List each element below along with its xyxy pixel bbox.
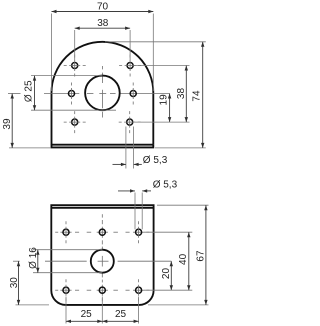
hole bottom-right	[127, 119, 133, 125]
dim 20 right	[170, 261, 172, 290]
dim 40 right	[144, 231, 192, 233]
hole top-left	[72, 62, 78, 68]
svg-text:38: 38	[176, 88, 187, 100]
bend line at back of base	[51, 207, 153, 209]
svg-text:25: 25	[115, 309, 127, 320]
svg-text:Ø 5,3: Ø 5,3	[143, 155, 168, 166]
dim 25 / 25 bottom	[65, 297, 67, 324]
svg-text:Ø 25: Ø 25	[24, 80, 35, 102]
horizontal centerline row 1	[55, 231, 58, 233]
dim 38 right	[134, 65, 190, 67]
horizontal centerline center hole	[13, 260, 20, 262]
base plate outline	[51, 205, 153, 305]
svg-text:38: 38	[97, 18, 109, 29]
dim 74 right	[105, 41, 206, 43]
hole row2-right	[136, 287, 142, 293]
vertical centerline of base	[101, 214, 103, 217]
svg-text:20: 20	[161, 268, 172, 280]
hole bottom-left	[72, 119, 78, 125]
base bottom edge	[52, 144, 154, 147]
hole mid-right	[130, 90, 136, 96]
svg-text:30: 30	[9, 277, 20, 289]
svg-text:19: 19	[159, 94, 170, 106]
hole mid-left	[68, 90, 74, 96]
bend line (base top edge)	[52, 144, 154, 146]
dim 19 right	[169, 94, 171, 123]
bracket front outline	[52, 42, 154, 145]
callout Ø5,3 (base hole)	[134, 193, 136, 230]
center hole Ø16	[91, 250, 114, 273]
svg-text:40: 40	[178, 253, 189, 265]
hole row1-left	[63, 229, 69, 235]
dim Ø25 left	[31, 75, 102, 77]
svg-text:67: 67	[195, 250, 206, 262]
svg-text:25: 25	[81, 309, 93, 320]
svg-text:39: 39	[2, 118, 13, 130]
horizontal centerline mid row	[8, 93, 21, 95]
hole row1-right	[136, 229, 142, 235]
svg-text:Ø 16: Ø 16	[28, 247, 39, 269]
dim 38 top	[74, 30, 76, 61]
hole top-right	[127, 62, 133, 68]
hole row2-left	[63, 287, 69, 293]
svg-text:70: 70	[97, 1, 109, 12]
dim Ø16 left	[33, 249, 102, 251]
horizontal centerline row 2	[55, 289, 58, 291]
dim 30 left	[16, 304, 50, 306]
vertical centerline of front view	[101, 66, 103, 69]
dim 70	[51, 14, 53, 92]
center hole Ø25	[85, 76, 120, 111]
dim 39 left	[9, 147, 51, 149]
dim 67 right	[157, 204, 209, 206]
hole row1-center	[99, 229, 105, 235]
svg-text:Ø 5,3: Ø 5,3	[153, 180, 178, 191]
hole row2-center	[99, 287, 105, 293]
callout Ø5,3 (front view hole)	[125, 127, 127, 169]
svg-text:74: 74	[191, 90, 202, 102]
